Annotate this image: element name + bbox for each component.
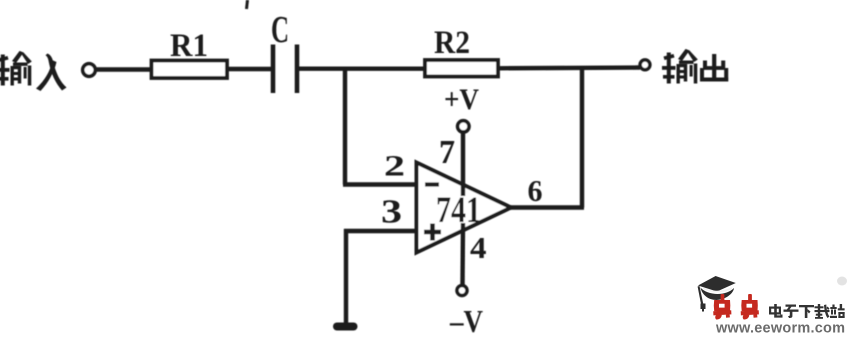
svg-text:C: C	[271, 9, 289, 51]
node label 输入 (input)	[0, 51, 67, 91]
output terminal	[640, 60, 650, 70]
glyph 输 (partially cut at left edge)	[0, 51, 32, 86]
svg-text:7: 7	[439, 134, 455, 171]
glyph 出	[700, 54, 728, 82]
second 虫	[741, 294, 759, 320]
svg-text:+V: +V	[444, 83, 479, 116]
wire pin 3 down to ground	[344, 229, 348, 323]
node A: junction vertical down to pin 2	[343, 69, 347, 185]
capacitor C	[271, 45, 276, 94]
svg-text:R1: R1	[170, 28, 208, 64]
wire R2 to output terminal (through node B)	[498, 65, 640, 70]
svg-text:www.eeworm.com: www.eeworm.com	[715, 321, 847, 335]
watermark text 电子下载站	[769, 304, 845, 319]
wire R1 to C	[227, 67, 271, 71]
wire pin 6 to node B	[510, 205, 584, 209]
svg-text:4: 4	[470, 230, 487, 265]
wire pin 7 (+V down into op-amp)	[461, 132, 465, 196]
wire node A to pin 2	[343, 182, 416, 186]
wire pin 4 (op-amp down to -V)	[460, 223, 465, 285]
watermark logo: 虫虫 (red)	[713, 294, 759, 320]
resistor R1	[152, 61, 228, 79]
wire input to R1	[96, 67, 152, 71]
站	[830, 304, 845, 318]
wire C to R2 (through node A)	[299, 66, 425, 70]
下	[799, 305, 814, 318]
first 虫	[713, 294, 731, 320]
子	[784, 305, 799, 319]
op-amp minus sign	[425, 182, 439, 186]
op-amp plus sign	[424, 224, 441, 241]
glyph 输	[662, 49, 698, 84]
svg-text:R2: R2	[434, 25, 470, 61]
电	[769, 304, 783, 318]
watermark logo: graduation cap	[698, 276, 736, 312]
svg-text:2: 2	[384, 150, 405, 183]
svg-text:6: 6	[528, 173, 543, 208]
wire pin 3	[344, 229, 416, 233]
svg-text:–V: –V	[449, 303, 483, 334]
op-amp U1 triangle	[417, 163, 512, 253]
+V terminal	[458, 121, 469, 132]
input terminal	[83, 64, 96, 77]
stray scan mark top	[247, 0, 248, 9]
faint scan smudge top-right of watermark	[837, 277, 847, 286]
svg-text:3: 3	[381, 194, 402, 231]
载	[815, 304, 830, 319]
svg-text:741: 741	[436, 190, 481, 231]
-V terminal	[457, 286, 467, 296]
node label 输出 (output)	[662, 49, 728, 84]
white highlight sliver on cap	[703, 288, 732, 292]
resistor R2	[425, 60, 498, 77]
ground	[337, 323, 354, 331]
node B: junction vertical down to pin 6	[580, 68, 584, 208]
glyph 入	[36, 54, 67, 92]
